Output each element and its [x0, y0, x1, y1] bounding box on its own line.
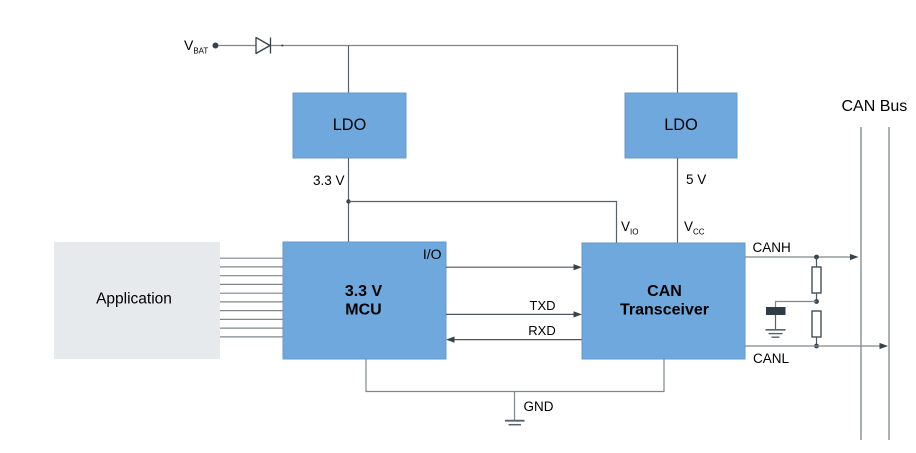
svg-text:CAN: CAN — [647, 283, 682, 300]
svg-text:I/O: I/O — [423, 246, 442, 262]
svg-text:GND: GND — [524, 399, 554, 414]
wire 3.3V net LDO1 output down to MCU — [348, 158, 350, 243]
regulator LDO1 (3.3 V) — [293, 93, 406, 158]
svg-text:LDO: LDO — [664, 116, 697, 134]
svg-text:Application: Application — [96, 291, 172, 308]
svg-text:CAN Bus: CAN Bus — [842, 98, 908, 115]
regulator LDO2 (5 V) — [625, 93, 737, 158]
node CANH junction dot — [814, 255, 819, 260]
node split termination junction dot — [814, 299, 819, 304]
svg-text:5 V: 5 V — [686, 172, 706, 187]
wire GND net (MCU and transceiver to ground) — [366, 359, 664, 421]
wire 3.3V branch to VIO — [349, 202, 617, 244]
svg-text:3.3 V: 3.3 V — [313, 173, 345, 188]
svg-text:LDO: LDO — [333, 116, 366, 134]
wire I/O MCU to transceiver — [446, 264, 582, 270]
block Application — [54, 242, 220, 359]
resistor R2 (termination lower) — [812, 311, 821, 346]
wire 5V net LDO2 output to VCC — [677, 158, 679, 243]
svg-text:MCU: MCU — [345, 302, 381, 319]
node waypoint dot on VBAT rail — [281, 45, 283, 47]
wire CANL transceiver to bus — [745, 343, 888, 349]
resistor R1 (termination upper) — [812, 257, 821, 302]
wire VBAT rail drop to LDO1 input — [348, 46, 350, 94]
node CANL junction dot — [814, 344, 819, 349]
wire VBAT rail (diode cathode to right corner) — [271, 45, 678, 47]
node VBAT terminal dot — [213, 43, 219, 49]
wire VBAT dot to diode anode — [218, 45, 256, 47]
wire RXD transceiver to MCU — [446, 337, 582, 343]
wire junction to capacitor — [776, 302, 817, 308]
wire Application-MCU parallel bus (10 lines) — [220, 258, 283, 337]
wire CANH transceiver to bus — [745, 254, 859, 260]
wire CAN bus line 2 (CANL) — [888, 127, 890, 440]
wire CAN bus line 1 (CANH) — [860, 127, 862, 440]
ground (capacitor) — [766, 330, 786, 337]
svg-text:CANL: CANL — [753, 351, 790, 366]
svg-text:3.3 V: 3.3 V — [345, 283, 383, 300]
svg-text:TXD: TXD — [530, 298, 556, 313]
block CAN Transceiver U2 — [582, 243, 745, 359]
svg-text:Transceiver: Transceiver — [620, 302, 709, 319]
diode D1 — [256, 38, 271, 54]
svg-text:CANH: CANH — [753, 240, 791, 255]
ground (system) — [505, 421, 525, 425]
wire VBAT rail drop to LDO2 input — [677, 46, 679, 94]
capacitor C1 (split termination) — [766, 307, 786, 330]
block MCU U1 — [283, 242, 446, 359]
wire TXD MCU to transceiver — [446, 311, 582, 317]
node 3.3V junction dot — [346, 199, 350, 203]
svg-text:RXD: RXD — [528, 323, 555, 338]
